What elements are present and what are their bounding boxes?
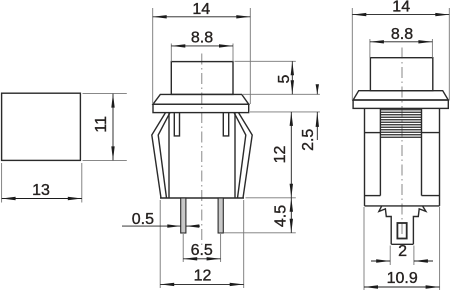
dimension line right 14 (352, 14, 449, 16)
svg-text:13: 13 (32, 182, 50, 199)
stem bottom (391, 243, 413, 245)
body left edge (168, 113, 170, 198)
right wing outer edge (239, 113, 253, 198)
svg-text:14: 14 (392, 0, 410, 16)
threads (380, 110, 421, 137)
step line right (422, 132, 440, 134)
extension line 2 left (389, 246, 391, 266)
svg-text:0.5: 0.5 (132, 211, 154, 228)
extension line mid 8.8 right (232, 44, 234, 62)
extension line 10.9 left (363, 207, 365, 290)
extension line 11 bottom (83, 159, 127, 161)
dimension line 6.5 (183, 258, 220, 260)
extension line 2 right (413, 246, 415, 266)
top view outline rectangle (2, 93, 81, 160)
svg-text:2.5: 2.5 (300, 129, 317, 151)
left post (174, 113, 179, 136)
right pin (218, 198, 223, 233)
extension line pin bottom right (224, 232, 296, 234)
left pin (181, 198, 186, 233)
svg-text:12: 12 (272, 146, 289, 164)
svg-text:4.5: 4.5 (273, 205, 290, 227)
svg-text:12: 12 (194, 268, 212, 285)
extension line 6.5 right (220, 234, 222, 262)
extension line 12 bottom right (243, 200, 245, 288)
body right outer wall (439, 108, 441, 205)
right zigzag and stem right (413, 206, 426, 244)
flange band front (153, 104, 249, 112)
dimension line right 8.8 (370, 41, 433, 43)
extension line 13 left (1, 163, 3, 203)
extension line 12 bottom left (159, 200, 161, 288)
svg-text:14: 14 (192, 1, 210, 18)
body left outer wall (364, 108, 366, 205)
terminal slot (397, 223, 406, 239)
svg-text:11: 11 (93, 116, 110, 133)
center line (vertical dash-dot) (201, 54, 203, 247)
flange top surface side (353, 91, 448, 100)
dimension line 11 (112, 94, 114, 161)
button cap front (171, 62, 233, 95)
dimension line 13 (2, 198, 82, 200)
left wing inner edge (158, 113, 170, 198)
extension line mid 8.8 left (170, 44, 172, 62)
body inner left line (379, 108, 381, 195)
body bottom line (365, 205, 440, 207)
extension line mid 14 right (249, 8, 251, 104)
svg-text:8.8: 8.8 (391, 26, 413, 43)
flange band side (353, 100, 448, 108)
extension line right 8.8 right (431, 39, 433, 58)
flange top surface front (153, 94, 249, 104)
extension line 5 top (cap top) (235, 60, 296, 62)
svg-text:6.5: 6.5 (191, 242, 213, 259)
button cap side (370, 58, 432, 91)
extension line mid 14 left (152, 8, 154, 104)
extension line 10.9 right (439, 207, 441, 290)
extension line right 14 left (351, 8, 353, 100)
extension line 13 right (81, 163, 83, 203)
body bottom line (160, 197, 244, 199)
dimension line mid 8.8 (171, 45, 233, 47)
left zigzag and stem left (379, 206, 391, 244)
channel bottom right (422, 195, 440, 197)
extension line 6.5 left (182, 234, 184, 262)
dimension line 12 bottom (160, 283, 244, 285)
dimension line 2 (arrows outside) (371, 260, 390, 262)
svg-text:5: 5 (276, 74, 293, 83)
extension line flange top right (243, 93, 320, 95)
extension line right 14 right (448, 8, 450, 100)
step line left (365, 132, 381, 134)
svg-text:8.8: 8.8 (191, 29, 213, 46)
dimension line 2.5 (arrows outside) (316, 85, 318, 94)
body inner right line (421, 108, 423, 195)
dimension line mid 14 (153, 16, 251, 18)
extension line flange bottom right (250, 111, 320, 113)
right wing inner edge (234, 113, 246, 198)
dimension line 4.5 (290, 198, 292, 233)
dimension line 5 (291, 61, 293, 94)
leader line 0.5 (122, 225, 181, 227)
svg-text:2: 2 (398, 243, 407, 260)
extension line 11 top (83, 93, 127, 95)
right post (223, 113, 228, 136)
svg-text:10.9: 10.9 (387, 270, 418, 287)
center line right view (401, 48, 403, 242)
left wing outer edge (152, 113, 166, 198)
dimension line 10.9 (364, 286, 440, 288)
extension line body bottom right (246, 197, 296, 199)
body right edge (234, 113, 236, 198)
dimension line 12 right (290, 112, 292, 198)
channel bottom left (365, 195, 381, 197)
extension line right 8.8 left (369, 39, 371, 58)
